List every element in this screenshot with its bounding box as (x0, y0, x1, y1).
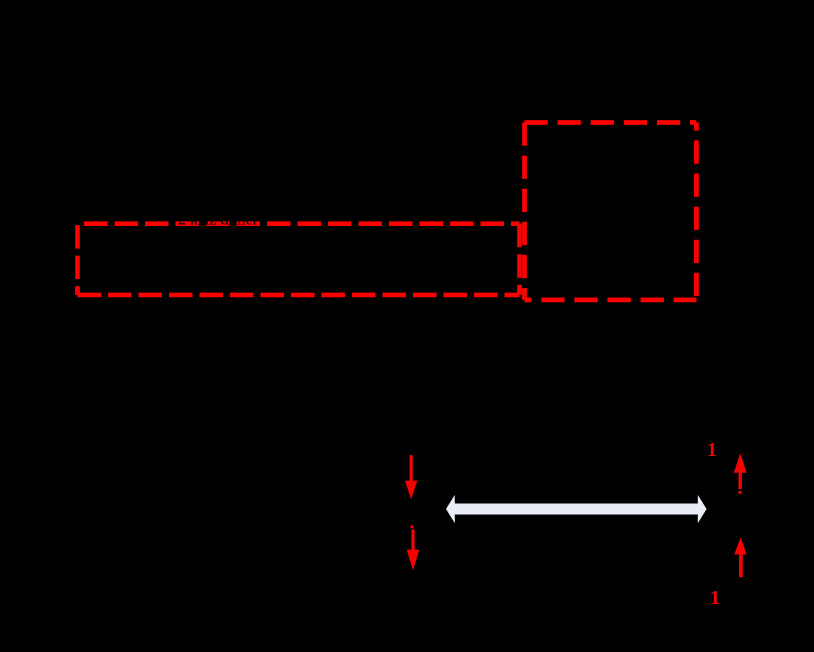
svg-text:1: 1 (710, 587, 720, 609)
svg-text:1: 1 (707, 439, 717, 461)
svg-text:2 kHz dither: 2 kHz dither (178, 212, 259, 229)
